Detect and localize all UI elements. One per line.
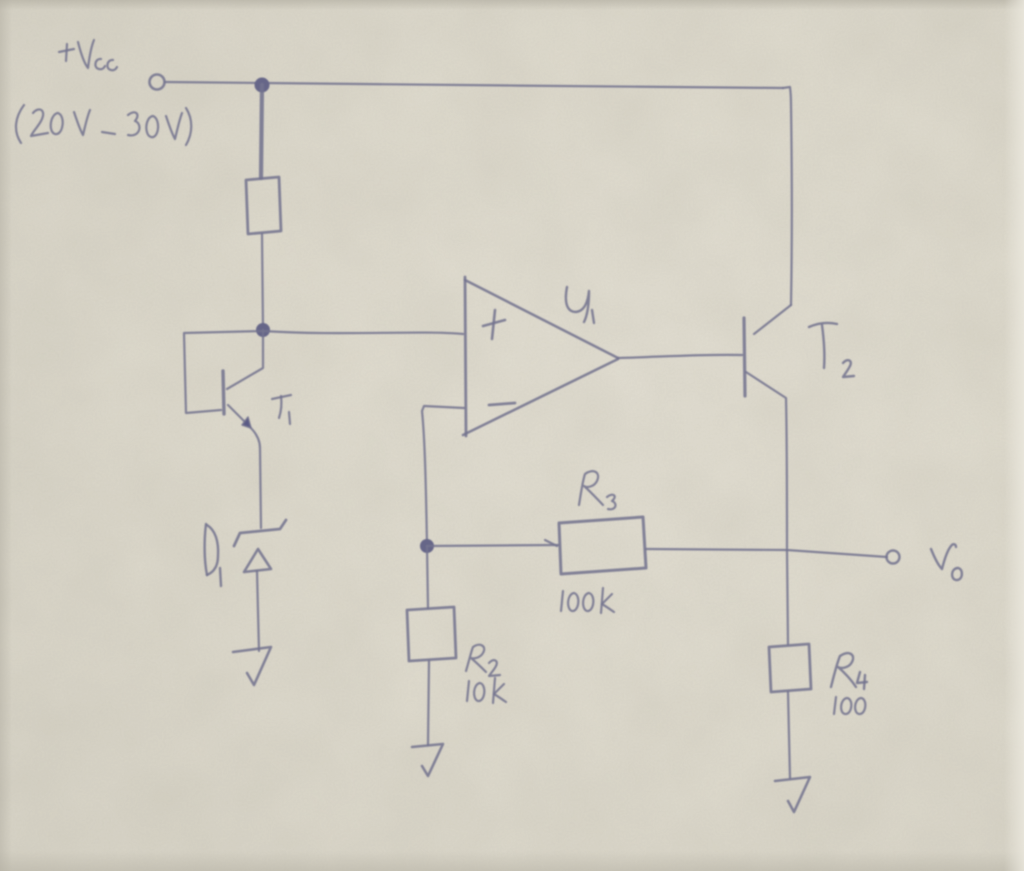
wire R2 to ground	[428, 661, 429, 745]
label R2	[466, 645, 500, 676]
T1 collector	[227, 330, 263, 389]
label T1	[272, 395, 291, 424]
Vcc terminal circle	[150, 75, 165, 90]
wire T2 emitter down to R4	[787, 550, 788, 644]
label Vo	[931, 544, 962, 580]
transistor T2 base bar	[744, 318, 745, 396]
label R4	[831, 653, 867, 689]
label 100k	[561, 588, 614, 613]
wire R4 to ground	[788, 692, 790, 778]
label T2	[809, 323, 854, 377]
wire R1 to node	[262, 234, 263, 329]
resistor R2 box	[407, 607, 456, 661]
op-amp U1 triangle	[465, 277, 466, 436]
wire node to R3	[427, 545, 558, 546]
T1 emitter with arrow	[228, 405, 261, 528]
wire op-amp output to T2 base	[618, 355, 742, 358]
label 10k	[467, 678, 506, 703]
transistor T1 base bar	[223, 371, 224, 414]
resistor R4 box	[769, 644, 811, 692]
T2 collector	[754, 305, 791, 334]
ground D1	[233, 647, 271, 685]
wire minus input	[422, 406, 464, 545]
wire node to op-amp plus input	[263, 331, 463, 334]
Vo terminal circle	[887, 551, 900, 564]
label D1	[205, 524, 221, 586]
T2 emitter	[746, 372, 787, 548]
wire node left loop to T1 base	[184, 331, 263, 413]
wire R3 to output node	[646, 549, 787, 550]
resistor R3 box	[559, 517, 646, 574]
label U1	[566, 287, 594, 323]
label R3	[579, 471, 615, 509]
zener triangle	[244, 549, 271, 572]
label +Vcc	[59, 40, 117, 70]
zener diode D1 bar	[234, 520, 286, 546]
junction dot top	[255, 78, 270, 93]
resistor R1 box	[246, 177, 281, 234]
label 100	[834, 697, 865, 714]
wire junction down to R1	[261, 85, 262, 178]
label (20V - 30V)	[16, 105, 191, 145]
wire zener to ground	[257, 571, 259, 651]
junction dot middle	[256, 323, 270, 337]
ground R2	[412, 744, 443, 776]
plus sign	[483, 320, 505, 326]
ground R4	[775, 777, 810, 812]
wire node down to R2	[427, 546, 428, 608]
wire output node to Vo	[787, 550, 887, 557]
wire right corner down	[783, 87, 792, 305]
minus sign	[489, 403, 515, 405]
wire top rail	[165, 82, 783, 88]
junction dot R2/R3	[420, 539, 434, 553]
